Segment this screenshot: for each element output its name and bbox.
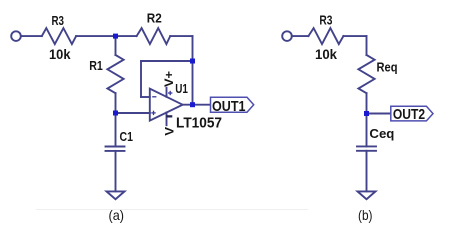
svg-text:LT1057: LT1057 <box>176 116 222 132</box>
svg-text:(b): (b) <box>358 207 373 223</box>
svg-text:OUT2: OUT2 <box>393 107 425 123</box>
svg-text:R3: R3 <box>52 13 65 28</box>
svg-text:Req: Req <box>377 60 398 75</box>
svg-text:OUT1: OUT1 <box>212 99 246 115</box>
svg-text:R2: R2 <box>147 11 162 26</box>
svg-text:Ceq: Ceq <box>369 126 394 141</box>
svg-text:V: V <box>163 127 177 136</box>
svg-text:V+: V+ <box>162 71 176 87</box>
svg-text:(a): (a) <box>109 207 125 223</box>
svg-text:R3: R3 <box>319 13 332 28</box>
svg-text:C1: C1 <box>120 129 133 144</box>
svg-text:10k: 10k <box>315 46 337 62</box>
svg-text:10k: 10k <box>49 46 71 62</box>
svg-text:R1: R1 <box>89 58 103 73</box>
svg-text:U1: U1 <box>175 81 188 96</box>
